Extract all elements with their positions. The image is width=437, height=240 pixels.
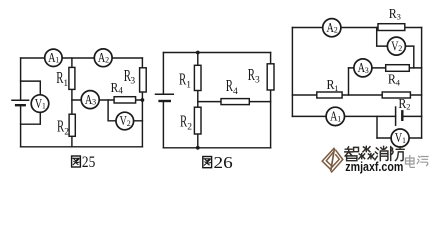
svg-text:R: R	[179, 70, 186, 89]
svg-text:R: R	[388, 72, 396, 87]
voltmeter V1 fig3	[391, 129, 409, 147]
battery B3 long plate	[395, 107, 397, 125]
svg-text:2: 2	[187, 122, 192, 132]
ammeter A2 fig25	[94, 49, 112, 67]
wire right fig25	[141, 58, 143, 147]
voltmeter V2 fig3	[387, 37, 405, 55]
svg-text:1: 1	[42, 102, 46, 111]
svg-text:2: 2	[105, 56, 109, 65]
svg-text:zmjaxf.com: zmjaxf.com	[345, 160, 403, 174]
wire A3R4 row fig3	[349, 67, 422, 69]
voltmeter V2 fig25	[116, 112, 134, 130]
svg-text:1: 1	[63, 79, 68, 89]
svg-text:2: 2	[398, 44, 402, 53]
ammeter A3 fig3	[354, 59, 372, 77]
resistor R2 fig25	[69, 114, 75, 136]
resistor R1 fig25	[69, 67, 75, 89]
wire bottom fig25	[21, 146, 143, 148]
wire top fig3	[292, 27, 421, 29]
wire bottom fig26	[163, 147, 270, 149]
wire middle fig26	[198, 101, 271, 103]
wire bottom left fig3	[292, 115, 395, 117]
wire left fig3	[291, 28, 293, 117]
wire branch fig26	[197, 53, 199, 148]
svg-text:2: 2	[64, 127, 69, 137]
battery B1 long plate	[12, 99, 29, 101]
svg-text:R: R	[56, 68, 63, 87]
svg-text:26: 26	[214, 153, 233, 172]
watermark logo diamond	[322, 148, 343, 172]
svg-text:2: 2	[127, 119, 131, 128]
wire left lower fig25	[20, 105, 22, 147]
ammeter A1 fig25	[45, 49, 62, 66]
battery B3 short plate	[401, 111, 403, 120]
resistor R2 fig26	[194, 107, 201, 134]
wire V1 left fig3	[376, 116, 378, 138]
wire bottom right fig3	[402, 115, 421, 117]
svg-text:3: 3	[92, 98, 96, 107]
ammeter A2 fig3	[323, 19, 341, 37]
battery B1 short plate	[16, 104, 25, 106]
svg-text:3: 3	[397, 12, 401, 22]
svg-text:4: 4	[118, 86, 123, 96]
wire V1 bottom fig3	[377, 137, 422, 139]
resistor R4 fig26	[221, 99, 249, 105]
resistor R4 fig3	[386, 65, 410, 72]
wire left upper fig25	[20, 58, 22, 100]
battery B2 short plate	[160, 100, 170, 102]
watermark grey text dianqi	[406, 156, 429, 168]
svg-text:25: 25	[82, 154, 96, 171]
caption fig26	[203, 157, 212, 168]
svg-text:R: R	[398, 96, 406, 111]
wire top fig26	[163, 52, 270, 54]
svg-text:1: 1	[402, 136, 406, 145]
svg-text:R: R	[226, 76, 233, 95]
wire top fig25	[21, 57, 143, 59]
resistor R3 fig25	[140, 68, 147, 92]
resistor R3 fig26	[267, 64, 274, 90]
svg-text:R: R	[248, 65, 255, 84]
ammeter A3 fig25	[81, 91, 99, 109]
resistor R2 fig3	[382, 92, 410, 98]
wire V2 branch fig25	[108, 100, 142, 121]
node top fig26	[196, 51, 200, 55]
voltmeter V1 fig25	[31, 95, 49, 113]
ammeter A1 fig3	[326, 107, 344, 125]
svg-text:R: R	[57, 117, 64, 136]
wire V1 branch bottom fig25	[21, 112, 41, 124]
wire R1R2 row fig3	[292, 94, 421, 96]
resistor R1 fig3	[317, 92, 342, 98]
svg-text:R: R	[389, 6, 397, 21]
node junction fig25	[141, 98, 145, 102]
svg-text:4: 4	[233, 87, 238, 97]
resistor R4 fig25	[114, 97, 136, 103]
battery B2 long plate	[156, 93, 174, 95]
svg-text:R: R	[180, 111, 187, 130]
wire R1R2 branch fig25	[71, 58, 73, 147]
resistor R1 fig26	[194, 65, 201, 90]
svg-text:3: 3	[255, 76, 260, 86]
svg-text:3: 3	[365, 66, 369, 75]
svg-text:R: R	[327, 77, 335, 92]
svg-text:2: 2	[334, 26, 338, 35]
wire right fig26	[270, 53, 272, 148]
caption fig25	[72, 156, 81, 167]
resistor R3 fig3	[378, 24, 405, 31]
svg-text:4: 4	[396, 77, 401, 87]
wire left lower fig26	[162, 101, 164, 148]
svg-text:3: 3	[130, 77, 135, 87]
node bottom fig26	[196, 146, 200, 150]
wire V2 branch fig3	[377, 28, 414, 68]
svg-text:1: 1	[337, 114, 341, 123]
svg-text:1: 1	[55, 56, 59, 65]
svg-text:1: 1	[334, 83, 338, 93]
wire V1 branch top fig25	[21, 81, 41, 95]
wire left upper fig26	[162, 53, 164, 95]
svg-text:2: 2	[406, 102, 410, 112]
wire V1 right fig3	[421, 116, 423, 138]
wire A3 riser fig3	[348, 68, 350, 95]
wire right fig3	[421, 28, 423, 117]
watermark text zhimiao xiaofang	[345, 146, 404, 160]
wire middle fig25	[72, 99, 142, 101]
svg-text:1: 1	[186, 81, 191, 91]
